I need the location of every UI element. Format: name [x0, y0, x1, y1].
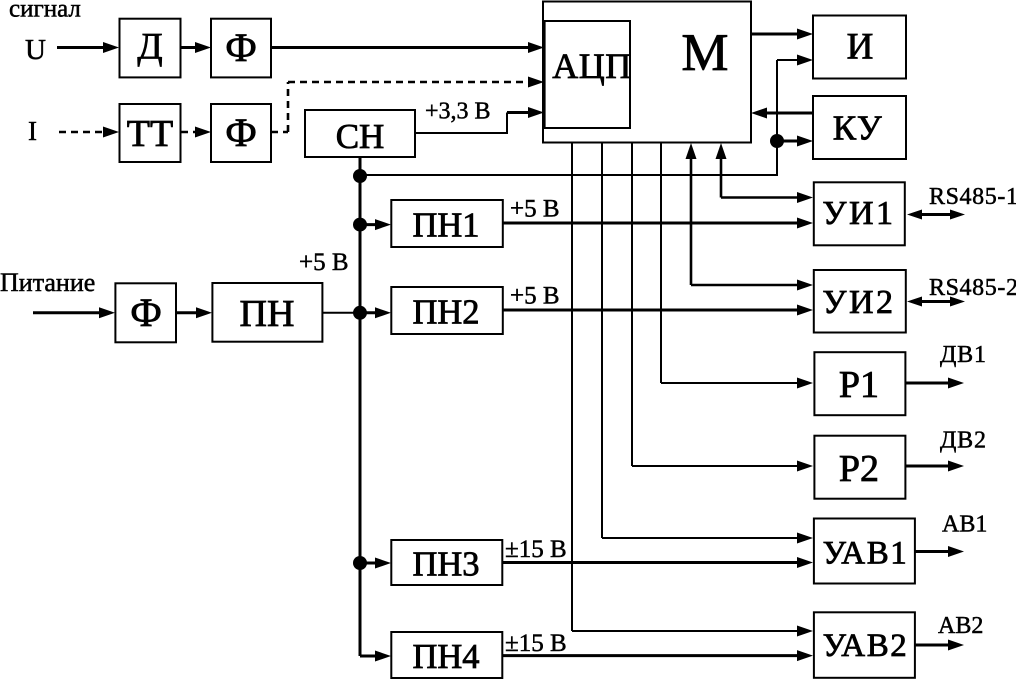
wire Р1 output ДВ1 — [905, 378, 964, 389]
input U label — [25, 34, 46, 66]
block Р2 (реле 2) — [814, 436, 905, 499]
wire М to И — [751, 29, 813, 40]
label ±15 В (ПН3) — [505, 536, 567, 563]
block УАВ2 — [814, 612, 915, 678]
block ПН2 — [391, 287, 503, 334]
svg-text:+5 В: +5 В — [299, 249, 349, 276]
block ТТ (трансформатор тока) — [120, 104, 181, 162]
block Ф3 (фильтр питания) — [115, 283, 176, 342]
svg-text:ПН: ПН — [240, 293, 295, 335]
block Ф1 (фильтр) — [211, 19, 271, 78]
wire СН supply to И and КУ — [360, 55, 813, 177]
wire М to УАВ1 (control) — [602, 142, 813, 544]
label +5 В (ПН1) — [510, 196, 560, 223]
label ДВ1 — [940, 342, 987, 368]
svg-text:ПН2: ПН2 — [412, 294, 479, 332]
svg-text:+5 В: +5 В — [510, 283, 560, 310]
block Д (детектор) — [120, 19, 181, 78]
svg-text:УАВ2: УАВ2 — [823, 628, 909, 664]
wire dot to КУ — [777, 136, 813, 147]
svg-text:АЦП: АЦП — [552, 46, 632, 86]
wire УАВ1 output АВ1 — [915, 546, 964, 557]
wire М to Р2 (control) — [632, 142, 813, 472]
label ДВ2 — [940, 428, 987, 454]
block ПН (преобразователь напряжения) — [212, 283, 322, 342]
svg-text:ПН1: ПН1 — [412, 207, 479, 245]
svg-text:U: U — [25, 34, 46, 66]
block Ф2 (фильтр) — [211, 104, 271, 162]
net label "Питание" — [0, 268, 95, 297]
block ПН3 — [391, 540, 502, 585]
block ПН4 — [391, 632, 502, 678]
svg-text:Р2: Р2 — [839, 448, 879, 490]
wire Питание input arrow — [33, 307, 115, 318]
wire bus to ПН3 — [360, 558, 391, 569]
wire bus corner to ПН4 — [360, 651, 391, 662]
wire I input dashed arrow — [59, 127, 119, 138]
svg-text:+5 В: +5 В — [510, 196, 560, 223]
svg-text:СН: СН — [336, 117, 385, 156]
label +3,3 В — [425, 99, 491, 125]
junction dot bus ПН2 — [353, 306, 367, 320]
block АЦП — [545, 21, 632, 128]
svg-text:I: I — [28, 116, 37, 146]
wire М-УИ2 bidirectional — [686, 143, 814, 291]
label ±15 В (ПН4) — [505, 630, 567, 657]
svg-text:АВ1: АВ1 — [942, 512, 987, 538]
svg-text:±15 В: ±15 В — [505, 630, 567, 657]
svg-text:УИ2: УИ2 — [822, 284, 895, 321]
wire КУ to М — [751, 108, 813, 119]
wire U input arrow — [57, 42, 119, 53]
svg-text:ДВ2: ДВ2 — [940, 428, 987, 454]
wire ТТ to Ф dashed — [181, 127, 211, 138]
label RS485-1 — [929, 184, 1016, 210]
svg-text:И: И — [847, 27, 874, 68]
svg-text:Ф: Ф — [225, 110, 257, 155]
block КУ (кнопки управления) — [813, 96, 906, 159]
wire Д to Ф — [181, 42, 211, 53]
svg-text:Р1: Р1 — [839, 364, 879, 406]
wire bus to ПН2 — [360, 307, 391, 318]
svg-text:Питание: Питание — [0, 268, 95, 297]
svg-text:АВ2: АВ2 — [938, 613, 983, 639]
block И (индикатор) — [813, 16, 906, 79]
svg-text:ДВ1: ДВ1 — [940, 342, 987, 368]
svg-text:УАВ1: УАВ1 — [823, 536, 909, 572]
block УАВ1 — [814, 519, 915, 584]
wire ПН output to bus — [322, 312, 360, 314]
svg-text:Ф: Ф — [130, 290, 162, 335]
wire УИ1 RS485-1 double arrow — [907, 210, 965, 220]
junction dot bus ПН1 — [353, 218, 367, 232]
block УИ2 (интерфейс 2) — [814, 270, 906, 333]
block УИ1 (интерфейс 1) — [814, 182, 905, 245]
wire ПН1 to УИ1 +5В — [503, 218, 813, 229]
svg-text:Ф: Ф — [225, 25, 257, 70]
block М (микроконтроллер) — [543, 2, 751, 143]
input I label — [28, 116, 37, 146]
net label "сигнал" — [9, 0, 81, 23]
svg-text:RS485-1: RS485-1 — [929, 184, 1016, 210]
svg-text:ТТ: ТТ — [127, 113, 173, 155]
label АВ1 — [942, 512, 987, 538]
label АВ2 — [938, 613, 983, 639]
label RS485-2 — [929, 275, 1016, 301]
wire ПН3 to УАВ1 ±15В — [502, 557, 813, 568]
wire М to УАВ2 (control) — [572, 142, 813, 637]
svg-text:±15 В: ±15 В — [505, 536, 567, 563]
junction dot bus top (СН line) — [353, 169, 367, 183]
svg-text:КУ: КУ — [833, 109, 883, 148]
svg-text:+3,3 В: +3,3 В — [425, 99, 491, 125]
svg-text:ПН4: ПН4 — [412, 638, 479, 676]
block СН (стабилизатор напряжения) — [305, 110, 415, 157]
wire ПН4 to УАВ2 ±15В — [502, 650, 813, 661]
wire Р2 output ДВ2 — [905, 461, 964, 472]
wire +5В bus vertical — [359, 157, 362, 656]
block Р1 (реле 1) — [814, 352, 905, 415]
junction dot КУ supply — [770, 134, 784, 148]
wire bus to ПН1 — [360, 219, 391, 230]
wire СН to АЦП +3,3В — [415, 107, 544, 134]
wire М to Р1 (control) — [661, 142, 813, 389]
svg-text:RS485-2: RS485-2 — [929, 275, 1016, 301]
svg-text:УИ1: УИ1 — [822, 195, 895, 232]
svg-text:М: М — [681, 24, 728, 82]
label +5 В (ПН2) — [510, 283, 560, 310]
wire УИ2 RS485-2 double arrow — [907, 297, 965, 307]
svg-text:ПН3: ПН3 — [412, 546, 479, 584]
wire М-УИ1 bidirectional — [716, 143, 814, 203]
label +5 В (ПН output) — [299, 249, 349, 276]
junction dot bus ПН3 — [353, 556, 367, 570]
block ПН1 — [391, 200, 503, 247]
wire УАВ2 output АВ2 — [915, 640, 964, 651]
svg-text:Д: Д — [137, 27, 162, 68]
wire Ф2 to АЦП dashed — [271, 77, 544, 133]
wire ПН2 to УИ2 +5В — [503, 305, 813, 316]
wire Ф1 to АЦП — [271, 42, 544, 53]
wire Ф3 to ПН — [176, 307, 212, 318]
svg-text:сигнал: сигнал — [9, 0, 81, 23]
